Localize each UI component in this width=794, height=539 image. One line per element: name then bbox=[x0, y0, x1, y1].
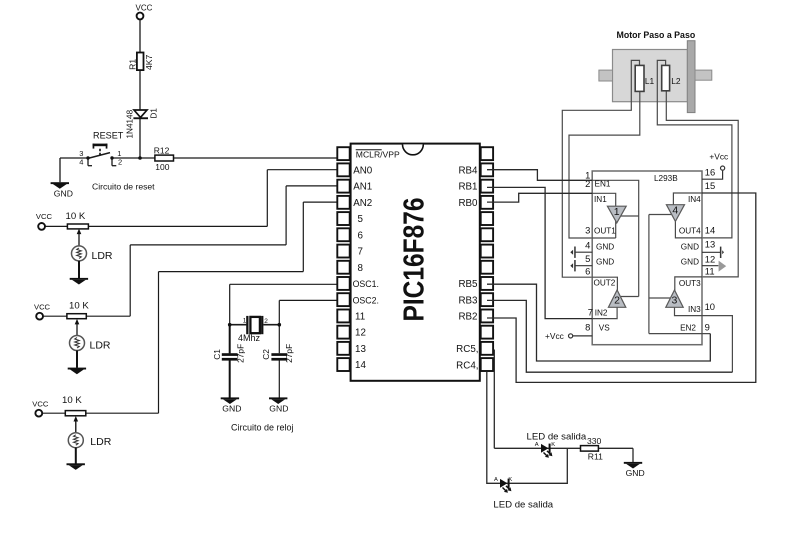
svg-text:8: 8 bbox=[585, 322, 590, 333]
svg-text:27pF: 27pF bbox=[284, 344, 294, 363]
svg-text:13: 13 bbox=[355, 344, 366, 355]
svg-text:1: 1 bbox=[243, 317, 247, 324]
svg-text:IN2: IN2 bbox=[595, 309, 608, 318]
svg-text:11: 11 bbox=[705, 266, 715, 277]
svg-text:OUT3: OUT3 bbox=[679, 279, 701, 288]
svg-text:MCLR/VPP: MCLR/VPP bbox=[356, 149, 400, 159]
svg-text:R12: R12 bbox=[154, 145, 170, 155]
svg-text:7: 7 bbox=[588, 307, 593, 318]
svg-text:2: 2 bbox=[118, 158, 122, 167]
svg-text:14: 14 bbox=[355, 360, 366, 371]
svg-text:RB3: RB3 bbox=[458, 295, 478, 306]
svg-text:15: 15 bbox=[705, 180, 715, 191]
svg-text:RC5,: RC5, bbox=[456, 344, 478, 355]
svg-text:VCC: VCC bbox=[32, 399, 49, 408]
svg-text:C1: C1 bbox=[212, 349, 222, 360]
svg-text:4Mhz: 4Mhz bbox=[238, 333, 261, 343]
svg-text:5: 5 bbox=[585, 253, 590, 264]
svg-text:GND: GND bbox=[596, 243, 614, 252]
svg-text:RC4,: RC4, bbox=[456, 360, 478, 371]
svg-text:L293B: L293B bbox=[654, 174, 678, 183]
svg-text:GND: GND bbox=[596, 257, 614, 266]
svg-text:2: 2 bbox=[585, 178, 590, 189]
svg-text:GND: GND bbox=[681, 243, 699, 252]
svg-text:10: 10 bbox=[705, 301, 715, 312]
svg-text:Circuito de reloj: Circuito de reloj bbox=[231, 423, 294, 433]
svg-text:AN2: AN2 bbox=[353, 198, 372, 209]
svg-text:11: 11 bbox=[355, 312, 365, 323]
svg-text:3: 3 bbox=[585, 225, 590, 236]
svg-text:EN2: EN2 bbox=[680, 323, 696, 332]
svg-text:OUT2: OUT2 bbox=[594, 279, 616, 288]
svg-text:330: 330 bbox=[587, 436, 602, 446]
svg-text:12: 12 bbox=[355, 328, 366, 339]
svg-text:GND: GND bbox=[222, 404, 241, 414]
svg-text:C2: C2 bbox=[261, 349, 271, 360]
svg-text:RB4: RB4 bbox=[458, 166, 478, 177]
svg-text:OSC1.: OSC1. bbox=[353, 279, 379, 289]
svg-text:K: K bbox=[551, 442, 555, 448]
svg-text:RB5: RB5 bbox=[458, 279, 478, 290]
svg-text:OUT1: OUT1 bbox=[594, 227, 616, 236]
svg-text:+Vcc: +Vcc bbox=[545, 331, 564, 341]
svg-text:IN4: IN4 bbox=[688, 195, 701, 204]
svg-text:Motor Paso a Paso: Motor Paso a Paso bbox=[617, 30, 696, 40]
svg-text:RB1: RB1 bbox=[458, 182, 477, 193]
svg-text:RB2: RB2 bbox=[458, 312, 477, 323]
svg-text:EN1: EN1 bbox=[595, 179, 611, 188]
svg-text:VCC: VCC bbox=[36, 212, 53, 221]
svg-text:A: A bbox=[494, 477, 498, 483]
svg-text:LDR: LDR bbox=[90, 436, 111, 448]
svg-text:LDR: LDR bbox=[90, 340, 111, 352]
svg-text:10 K: 10 K bbox=[66, 211, 86, 222]
svg-text:R11: R11 bbox=[588, 452, 603, 462]
svg-text:10 K: 10 K bbox=[62, 395, 82, 406]
svg-text:RESET: RESET bbox=[93, 130, 124, 140]
svg-text:8: 8 bbox=[358, 263, 364, 274]
svg-text:IN1: IN1 bbox=[594, 195, 607, 204]
svg-text:1: 1 bbox=[614, 206, 620, 218]
svg-text:GND: GND bbox=[54, 188, 73, 198]
svg-text:GND: GND bbox=[626, 468, 645, 478]
svg-text:PIC16F876: PIC16F876 bbox=[399, 198, 431, 322]
svg-text:VS: VS bbox=[599, 324, 610, 333]
svg-text:13: 13 bbox=[705, 239, 715, 250]
svg-text:4K7: 4K7 bbox=[144, 54, 154, 70]
svg-text:LED de salida: LED de salida bbox=[493, 499, 553, 510]
svg-text:D1: D1 bbox=[149, 108, 158, 119]
svg-text:AN1: AN1 bbox=[353, 182, 372, 193]
svg-text:4: 4 bbox=[672, 205, 678, 217]
svg-text:AN0: AN0 bbox=[353, 166, 373, 177]
svg-text:R1: R1 bbox=[128, 59, 138, 70]
svg-text:IN3: IN3 bbox=[688, 305, 701, 314]
svg-text:VCC: VCC bbox=[136, 3, 153, 12]
svg-text:K: K bbox=[508, 477, 512, 483]
svg-text:6: 6 bbox=[585, 266, 590, 277]
svg-text:7: 7 bbox=[358, 247, 363, 258]
svg-text:A: A bbox=[535, 442, 539, 448]
svg-text:OSC2.: OSC2. bbox=[353, 295, 379, 305]
svg-text:27pF: 27pF bbox=[236, 344, 246, 363]
svg-text:Circuito de reset: Circuito de reset bbox=[92, 181, 155, 191]
svg-text:4: 4 bbox=[585, 239, 590, 250]
svg-text:RB0: RB0 bbox=[458, 198, 478, 209]
svg-text:100: 100 bbox=[155, 162, 169, 172]
svg-text:12: 12 bbox=[705, 254, 715, 265]
svg-text:L2: L2 bbox=[671, 76, 681, 86]
svg-text:GND: GND bbox=[681, 257, 699, 266]
svg-text:4: 4 bbox=[79, 157, 83, 166]
svg-text:LDR: LDR bbox=[92, 250, 113, 262]
svg-text:LED de salida: LED de salida bbox=[527, 432, 587, 443]
svg-text:6: 6 bbox=[358, 230, 364, 241]
svg-text:2: 2 bbox=[614, 295, 620, 307]
svg-text:OUT4: OUT4 bbox=[679, 227, 701, 236]
svg-text:+Vcc: +Vcc bbox=[709, 152, 728, 162]
svg-text:10 K: 10 K bbox=[69, 300, 89, 311]
svg-text:2: 2 bbox=[264, 318, 268, 325]
svg-text:GND: GND bbox=[269, 404, 288, 414]
svg-text:1N4148: 1N4148 bbox=[126, 109, 135, 138]
svg-text:VCC: VCC bbox=[34, 302, 51, 311]
svg-text:3: 3 bbox=[671, 295, 677, 307]
svg-text:L1: L1 bbox=[645, 76, 655, 86]
svg-text:9: 9 bbox=[705, 322, 710, 333]
svg-text:5: 5 bbox=[358, 214, 364, 225]
svg-text:16: 16 bbox=[705, 167, 715, 178]
svg-text:14: 14 bbox=[705, 225, 715, 236]
